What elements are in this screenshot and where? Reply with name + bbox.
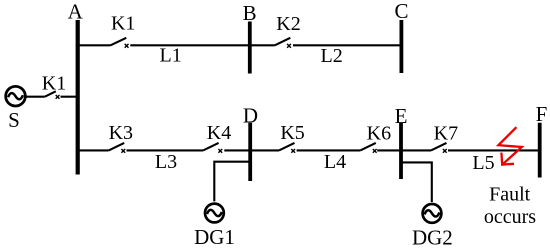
- svg-text:K6: K6: [367, 122, 391, 144]
- switch K4 blade: [203, 143, 219, 151]
- wire K3 to K4 (line L3): [127, 149, 204, 151]
- switch K1 contact: [125, 44, 129, 48]
- svg-text:F: F: [536, 102, 548, 126]
- bus B: [248, 22, 252, 74]
- svg-text:K1: K1: [42, 73, 66, 95]
- generator DG2: [423, 204, 442, 223]
- switch K7 blade: [431, 143, 447, 151]
- svg-text:Fault: Fault: [489, 183, 531, 205]
- svg-text:A: A: [68, 0, 84, 24]
- switch K2 contact: [287, 44, 291, 48]
- switch K7 contact: [443, 149, 447, 153]
- svg-text:occurs: occurs: [484, 206, 536, 228]
- wire K1 to K2 (line L1 through bus B): [130, 44, 274, 46]
- wire K2 to bus C (line L2): [293, 44, 401, 46]
- fault lightning bolt: [498, 127, 521, 164]
- bus E: [399, 123, 403, 179]
- switch K2 blade: [275, 38, 291, 46]
- switch K1 (source) contact: [56, 95, 60, 99]
- svg-text:L3: L3: [155, 151, 177, 173]
- svg-text:D: D: [243, 104, 258, 128]
- svg-text:C: C: [394, 0, 408, 23]
- svg-text:K2: K2: [276, 13, 300, 35]
- wire bus E to K7: [401, 149, 431, 151]
- svg-text:DG2: DG2: [412, 225, 453, 248]
- switch K4 contact: [218, 149, 222, 153]
- svg-text:E: E: [395, 104, 408, 128]
- svg-text:K1: K1: [111, 13, 135, 35]
- switch K3 contact: [121, 149, 125, 153]
- fault arrowhead: [501, 153, 514, 165]
- svg-text:L1: L1: [159, 45, 181, 67]
- switch K5 blade: [279, 143, 295, 151]
- wire bus A to K1 top: [78, 44, 111, 46]
- svg-text:S: S: [8, 108, 20, 132]
- svg-text:K7: K7: [434, 122, 458, 144]
- wire K1 to bus A: [61, 96, 78, 98]
- bus A: [76, 20, 80, 175]
- switch K3 blade: [109, 143, 125, 151]
- switch K1 blade: [111, 38, 127, 46]
- wire K6 to bus E: [377, 149, 401, 151]
- svg-text:B: B: [243, 1, 257, 25]
- wire S to K1: [27, 96, 45, 98]
- wire bus D to K5: [250, 149, 279, 151]
- generator DG1: [205, 204, 224, 223]
- wire K4 to bus D: [224, 149, 250, 151]
- source S: [6, 86, 26, 106]
- wire bus A to K3: [78, 149, 109, 151]
- wire K5 to K6 (line L4): [297, 149, 361, 151]
- bus D: [248, 123, 252, 181]
- switch K6 contact: [373, 149, 377, 153]
- svg-text:L4: L4: [324, 151, 346, 173]
- svg-text:L5: L5: [472, 152, 494, 174]
- switch K6 blade: [360, 143, 376, 151]
- svg-text:K5: K5: [280, 122, 304, 144]
- wire K7 to bus F (line L5): [448, 149, 540, 151]
- wire DG2 to bus E: [401, 162, 432, 202]
- bus C: [399, 20, 403, 73]
- switch K5 contact: [291, 149, 295, 153]
- svg-text:K3: K3: [109, 122, 133, 144]
- svg-text:K4: K4: [207, 122, 231, 144]
- wire DG1 to bus D: [214, 162, 250, 202]
- svg-text:DG1: DG1: [194, 225, 235, 248]
- switch K1 (source) blade: [45, 91, 56, 96]
- bus F: [538, 123, 542, 178]
- svg-text:L2: L2: [320, 45, 342, 67]
